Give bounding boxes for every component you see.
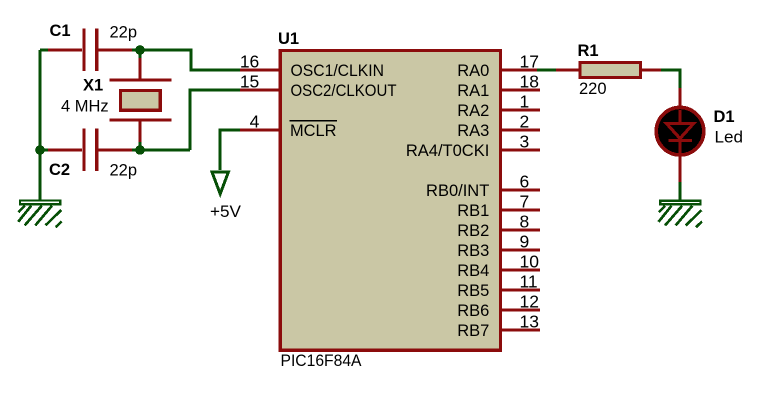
- ground (right): [659, 201, 703, 228]
- crystal X1: [110, 50, 172, 150]
- svg-text:D1: D1: [714, 108, 735, 126]
- svg-text:C2: C2: [49, 161, 70, 179]
- svg-text:X1: X1: [83, 77, 103, 95]
- wire: R1 to LED anode: [661, 70, 680, 88]
- svg-text:220: 220: [579, 80, 607, 98]
- svg-text:4: 4: [250, 112, 260, 132]
- pin name MCLR with overline: [290, 121, 338, 140]
- svg-text:RB4: RB4: [457, 262, 489, 280]
- svg-text:+5V: +5V: [210, 203, 241, 221]
- svg-text:RA0: RA0: [457, 62, 489, 80]
- svg-text:7: 7: [520, 192, 530, 212]
- U1 left pin stubs: [240, 70, 281, 130]
- resistor R1: [556, 63, 661, 78]
- svg-text:RB0/INT: RB0/INT: [426, 182, 489, 200]
- wire: OSC2 net from node B to pin 15: [132, 90, 240, 150]
- wire: OSC1 net from node A to pin 16: [132, 50, 240, 70]
- svg-text:2: 2: [520, 112, 530, 132]
- svg-text:RA2: RA2: [457, 102, 489, 120]
- svg-text:16: 16: [240, 52, 259, 72]
- capacitor C2: [48, 129, 132, 171]
- wire: MCLR net from +5V to pin 4: [220, 130, 240, 170]
- junction node C (40,150): [35, 145, 45, 155]
- power +5V terminal: [212, 172, 229, 194]
- svg-text:RB2: RB2: [457, 222, 489, 240]
- junction node B (140,150): [135, 145, 145, 155]
- svg-text:PIC16F84A: PIC16F84A: [281, 352, 362, 370]
- svg-text:MCLR: MCLR: [290, 122, 337, 140]
- svg-text:RB1: RB1: [457, 202, 489, 220]
- svg-text:R1: R1: [578, 42, 599, 60]
- svg-text:22p: 22p: [110, 161, 138, 179]
- svg-text:3: 3: [520, 132, 530, 152]
- svg-text:Led: Led: [715, 128, 744, 146]
- svg-text:18: 18: [520, 72, 539, 92]
- capacitor C1: [48, 29, 132, 71]
- svg-text:1: 1: [520, 92, 530, 112]
- svg-text:12: 12: [520, 292, 539, 312]
- svg-text:RA4/T0CKI: RA4/T0CKI: [406, 142, 489, 160]
- svg-text:RB3: RB3: [457, 242, 489, 260]
- svg-text:OSC1/CLKIN: OSC1/CLKIN: [291, 62, 385, 80]
- wire: left vertical net C1-left to C2-left to ground: [40, 50, 48, 200]
- svg-text:13: 13: [520, 312, 539, 332]
- svg-text:9: 9: [520, 232, 530, 252]
- junction node A (140,50): [135, 45, 145, 55]
- ground (left): [18, 201, 62, 228]
- svg-text:10: 10: [520, 252, 540, 272]
- svg-text:11: 11: [520, 272, 538, 292]
- svg-text:RB5: RB5: [457, 282, 489, 300]
- svg-text:OSC2/CLKOUT: OSC2/CLKOUT: [291, 82, 397, 100]
- diode D1 LED: [656, 88, 704, 182]
- svg-text:RB7: RB7: [457, 322, 489, 340]
- svg-text:RA3: RA3: [457, 122, 489, 140]
- wire: pin 17 to R1: [537, 68, 556, 71]
- svg-text:RA1: RA1: [457, 82, 489, 100]
- svg-text:C1: C1: [50, 22, 71, 40]
- U1 right pin stubs: [500, 70, 540, 330]
- IC U1 PIC16F84A body: [280, 50, 500, 350]
- svg-text:15: 15: [240, 72, 259, 92]
- svg-text:17: 17: [520, 52, 539, 72]
- wire: LED cathode to ground: [678, 182, 681, 200]
- svg-text:8: 8: [520, 212, 530, 232]
- svg-text:22p: 22p: [110, 24, 138, 42]
- svg-text:4 MHz: 4 MHz: [61, 98, 109, 116]
- svg-text:6: 6: [520, 172, 530, 192]
- svg-text:RB6: RB6: [457, 302, 489, 320]
- svg-text:U1: U1: [278, 30, 299, 48]
